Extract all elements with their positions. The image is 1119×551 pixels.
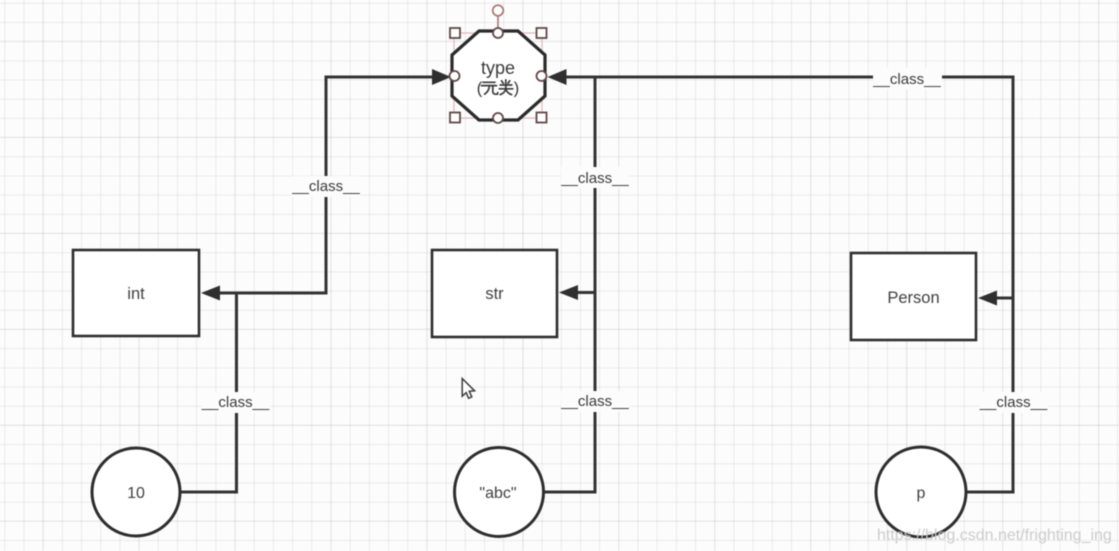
octagon type — [452, 31, 545, 120]
label __class__ top right — [872, 68, 942, 89]
rotation handle circle — [493, 5, 504, 16]
svg-text:__class__: __class__ — [201, 394, 270, 411]
svg-text:__class__: __class__ — [560, 170, 629, 187]
svg-text:): ) — [514, 79, 520, 98]
svg-text:"abc": "abc" — [479, 485, 516, 502]
mouse cursor — [462, 379, 474, 399]
svg-text:__class__: __class__ — [291, 178, 360, 195]
arrowhead into person right — [978, 291, 997, 306]
label __class__ center mid — [560, 167, 629, 188]
circle p — [876, 447, 966, 537]
glyph 类 — [502, 81, 504, 83]
label __class__ bottom right — [979, 392, 1048, 413]
arrowhead into octagon right — [548, 69, 567, 85]
arrowhead into str right — [559, 285, 578, 300]
svg-text:10: 10 — [127, 485, 145, 502]
selection handle circle right — [537, 71, 547, 81]
wire str stub — [577, 291, 595, 294]
label (元类) — [477, 79, 520, 98]
wire 10-to-int — [180, 294, 237, 492]
box str — [432, 250, 557, 337]
svg-text:__class__: __class__ — [872, 71, 941, 88]
svg-text:https://blog.csdn.net/frightin: https://blog.csdn.net/frighting_ing — [877, 527, 1112, 544]
box int — [73, 250, 199, 336]
label __class__ left mid — [291, 176, 360, 197]
svg-text:(: ( — [477, 79, 483, 98]
selection handle square bottom-left — [450, 113, 460, 123]
svg-text:Person: Person — [887, 289, 939, 307]
glyph 元 — [483, 81, 495, 83]
label __class__ bottom left — [201, 392, 270, 413]
selection handle square bottom-right — [537, 113, 547, 123]
selection handle circle bottom — [493, 113, 503, 123]
svg-text:p: p — [917, 485, 926, 502]
rotation handle stem — [497, 16, 499, 28]
svg-text:int: int — [127, 285, 145, 303]
wire abc-str-type vertical — [544, 78, 595, 492]
label __class__ bottom center — [560, 391, 629, 412]
wire type-to-person top horizontal — [565, 77, 1013, 492]
circle 10 — [92, 448, 180, 536]
selection handle square top-right — [537, 28, 547, 38]
wire person stub — [996, 297, 1013, 300]
arrowhead into int right — [201, 286, 220, 301]
selection handle circle top — [493, 28, 503, 38]
svg-text:str: str — [485, 285, 504, 303]
box Person — [851, 253, 976, 340]
svg-text:__class__: __class__ — [979, 394, 1048, 411]
selection handle circle left — [450, 71, 460, 81]
selection handle square top-left — [450, 28, 460, 38]
wire int-to-type with arrow into int — [219, 77, 433, 293]
svg-text:type: type — [481, 58, 515, 78]
circle abc — [455, 448, 544, 537]
selection outline around octagon — [454, 33, 542, 118]
arrowhead into octagon left — [432, 69, 451, 85]
svg-text:__class__: __class__ — [560, 393, 629, 410]
